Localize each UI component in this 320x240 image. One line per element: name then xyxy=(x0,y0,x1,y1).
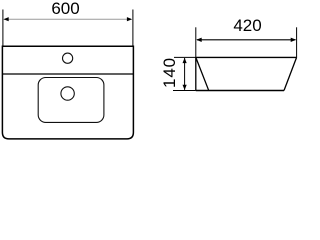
svg-text:600: 600 xyxy=(51,0,79,18)
svg-text:140: 140 xyxy=(160,57,179,88)
svg-text:420: 420 xyxy=(233,16,261,35)
